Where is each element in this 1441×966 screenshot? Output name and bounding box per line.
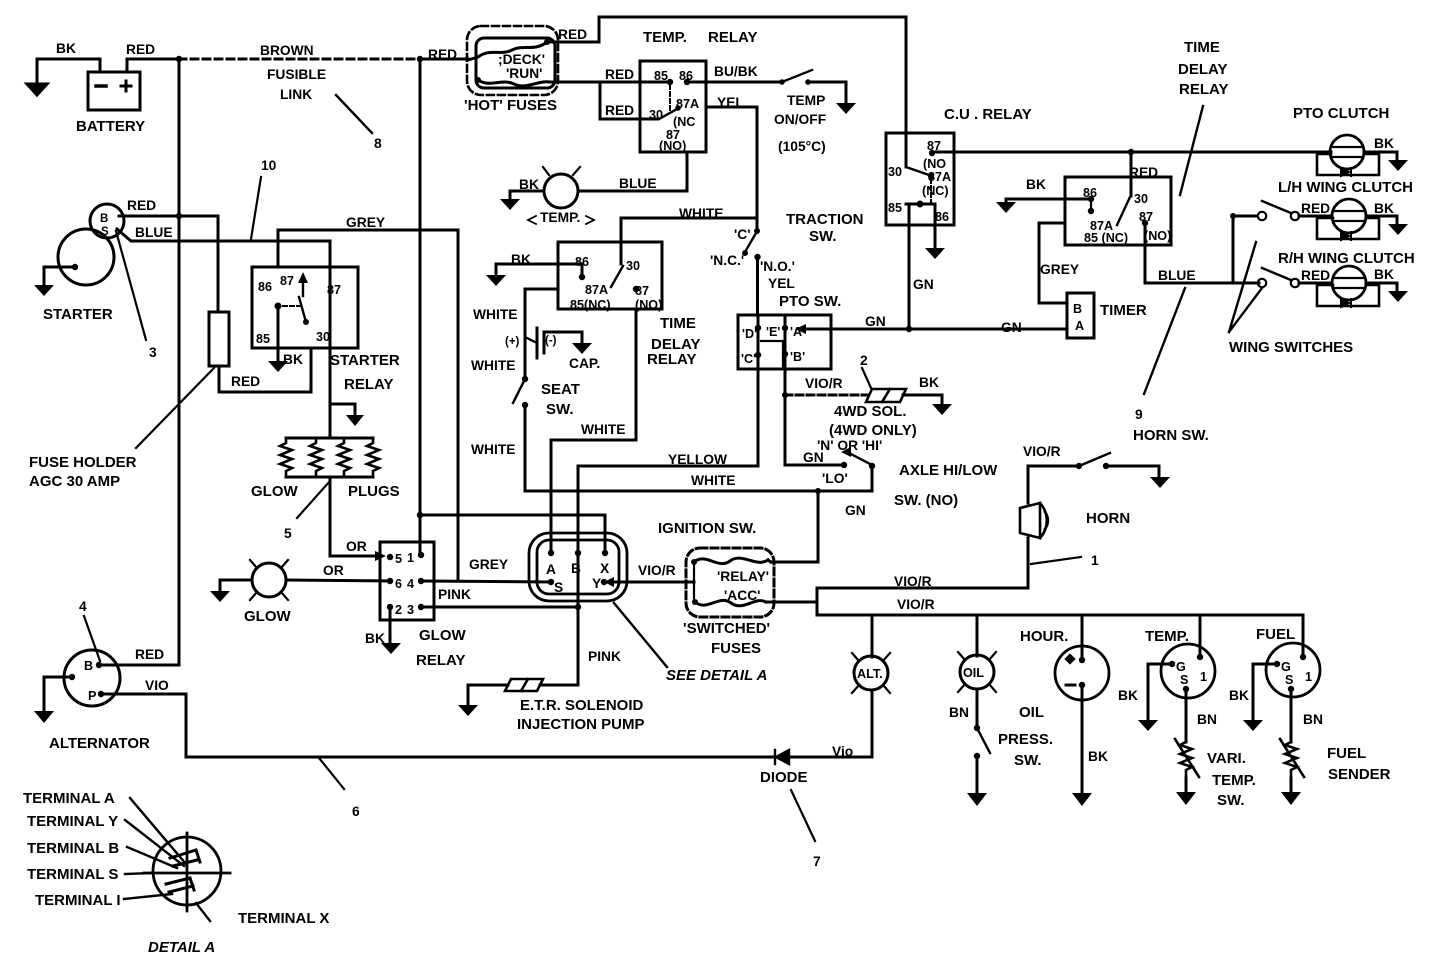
svg-text:VIO/R: VIO/R (897, 597, 935, 612)
svg-text:'SWITCHED': 'SWITCHED' (683, 620, 770, 637)
svg-text:C.U . RELAY: C.U . RELAY (944, 106, 1032, 123)
svg-text:TIME: TIME (1184, 39, 1220, 56)
wire TEMP gauge 1 feed (1199, 615, 1202, 657)
fuse ACC wavy (695, 600, 766, 605)
svg-text:PLUGS: PLUGS (348, 483, 400, 500)
svg-text:85: 85 (654, 69, 668, 83)
svg-text:FUSIBLE: FUSIBLE (267, 67, 326, 82)
R/H wing clutch frame (1317, 285, 1379, 306)
svg-text:HORN: HORN (1086, 510, 1130, 527)
svg-text:INJECTION PUMP: INJECTION PUMP (517, 716, 645, 733)
hour meter lower node (1079, 682, 1085, 688)
wire ignition B down (577, 553, 580, 607)
hot fuses inner box (476, 38, 555, 88)
arrowhead into pin5 (375, 551, 386, 561)
svg-text:TEMP.: TEMP. (643, 29, 687, 46)
svg-text:SW.: SW. (546, 401, 574, 418)
svg-text:SENDER: SENDER (1328, 766, 1391, 783)
svg-text:5: 5 (284, 526, 292, 541)
wire brown fusible link (dashed) (179, 58, 420, 61)
ground horn switch (1150, 477, 1170, 488)
svg-text:S: S (1285, 673, 1293, 687)
time delay relay 87 node (633, 286, 639, 292)
svg-text:VIO/R: VIO/R (638, 563, 676, 578)
svg-text:YEL: YEL (717, 95, 744, 110)
wire VIO alternator P to ALT lamp (101, 694, 872, 757)
svg-text:GN: GN (1001, 320, 1022, 335)
wire OR glow plug bus to glow relay 5 (330, 477, 378, 556)
svg-text:SW. (NO): SW. (NO) (894, 492, 958, 509)
ground vari temp switch (1176, 792, 1196, 805)
TEMP gauge circle (1161, 644, 1215, 698)
leader line label 8 (336, 95, 372, 133)
svg-text:RED: RED (605, 67, 634, 82)
svg-text:X: X (600, 561, 610, 576)
horn symbol (1020, 503, 1040, 538)
wire BK relay K5 86 to ground (1006, 199, 1091, 202)
glow relay pin6 node (387, 578, 393, 584)
PTO switch internal link (761, 341, 783, 367)
wire YEL temp relay 87a to traction sw (706, 107, 757, 231)
wire BLUE through relay to 30 column (329, 267, 332, 348)
horn switch node L (1076, 463, 1082, 469)
FUEL gauge S node (1288, 686, 1294, 692)
svg-text:WHITE: WHITE (679, 206, 723, 221)
ground capacitor (572, 343, 592, 354)
leader line see detail A (614, 603, 667, 667)
wire top bus down to C.U. relay 30 (905, 17, 908, 167)
ALT lamp circle (854, 656, 888, 690)
svg-text:30: 30 (316, 330, 330, 344)
svg-text:PRESS.: PRESS. (998, 731, 1053, 748)
svg-text:STARTER: STARTER (43, 306, 113, 323)
svg-text:YELLOW: YELLOW (668, 452, 728, 467)
PTO switch B node (782, 351, 788, 357)
svg-text:(4WD ONLY): (4WD ONLY) (829, 422, 917, 439)
svg-text:FUSES: FUSES (711, 640, 761, 657)
oil pressure switch bottom node (974, 753, 980, 759)
relay K5 (PTO time delay) box (1065, 177, 1171, 245)
wire RED to hot fuses (420, 58, 468, 61)
svg-text:BK: BK (1374, 136, 1394, 151)
time delay relay 86 node (579, 274, 585, 280)
wire starter relay 85 to ground BK (277, 306, 280, 361)
svg-text:1: 1 (407, 551, 414, 565)
svg-text:B: B (571, 561, 581, 576)
glow relay pin3 node (418, 604, 424, 610)
svg-text:'A': 'A' (790, 325, 805, 339)
axle switch lever (847, 452, 872, 465)
svg-text:FUEL: FUEL (1327, 745, 1366, 762)
svg-text:2: 2 (860, 353, 868, 368)
R/H clutch diode mark (1341, 299, 1351, 307)
glow lamp rays (250, 560, 288, 600)
seat switch top node (522, 376, 528, 382)
wire starter relay 87b down to glow plugs bus (329, 348, 332, 438)
svg-text:SW.: SW. (809, 228, 837, 245)
svg-text:BN: BN (1197, 712, 1217, 727)
leader line label 5 (297, 481, 330, 518)
svg-text:BK: BK (1118, 688, 1138, 703)
ground ETR solenoid (458, 705, 478, 716)
svg-text:6: 6 (395, 577, 402, 591)
svg-text:RED: RED (231, 374, 260, 389)
svg-text:SEE DETAIL A: SEE DETAIL A (666, 667, 767, 684)
wire PINK down to ETR solenoid (540, 607, 578, 685)
fuse holder F1 AGC 30 AMP (209, 312, 229, 366)
svg-text:DELAY: DELAY (1178, 61, 1227, 78)
svg-text:'B': 'B' (790, 350, 805, 364)
svg-text:RED: RED (605, 103, 634, 118)
wire fuse holder to starter relay 30 (219, 348, 311, 392)
svg-text:TERMINAL B: TERMINAL B (27, 840, 119, 857)
wire to upper wing switch (1233, 215, 1256, 218)
PTO switch E node (782, 325, 788, 331)
svg-text:(NC): (NC) (922, 184, 949, 198)
temp sender label arrows (528, 216, 594, 224)
alternator case node (69, 674, 75, 680)
detail A connector circle (153, 837, 221, 905)
leader line label 4 (84, 616, 100, 661)
fuse common link (693, 562, 695, 602)
leader line label 1 (1031, 557, 1081, 564)
wire RED C.U. relay 87 to PTO clutch (932, 152, 1331, 153)
traction switch NC node (742, 250, 748, 256)
temp relay 85 node (667, 79, 673, 85)
ground battery negative (27, 84, 47, 95)
svg-text:BATTERY: BATTERY (76, 118, 145, 135)
svg-text:1: 1 (1305, 670, 1312, 684)
wire BK R/H clutch ground (1366, 283, 1397, 291)
alternator B node (96, 662, 102, 668)
wire GN C.U. relay 85 down to GN bus (908, 204, 911, 329)
wire GN PTO A to timer A (806, 328, 1067, 331)
wire BLUE starter S to starter relay (117, 229, 330, 267)
wire BN FUEL gauge S to fuel sender (1290, 689, 1293, 742)
svg-text:'LO': 'LO' (822, 471, 848, 486)
wire RED upper wing switch to L/H clutch (1299, 215, 1332, 218)
wire VIO/R fuse acc to bus (766, 601, 817, 604)
svg-text:VARI.: VARI. (1207, 750, 1246, 767)
svg-text:TIMER: TIMER (1100, 302, 1147, 319)
seat switch lever (513, 379, 525, 403)
C.U. relay lever (906, 167, 929, 175)
node fusible link junction (417, 56, 423, 62)
wire GREY starter relay 87 to ignition S (278, 230, 458, 581)
svg-text:BLUE: BLUE (619, 176, 657, 191)
arrowhead into PTO A (795, 324, 806, 334)
svg-text:B: B (100, 213, 108, 225)
ground alternator (34, 711, 54, 723)
oil pressure switch lever (977, 728, 990, 753)
OIL lamp rays (958, 652, 996, 692)
svg-text:PINK: PINK (588, 649, 621, 664)
traction switch pivot node (754, 228, 760, 234)
wire WHITE traction common to time delay relay 30 (621, 218, 757, 264)
svg-text:9: 9 (1135, 407, 1143, 422)
wire battery feed down to starter B (178, 59, 181, 216)
svg-text:SW.: SW. (1217, 792, 1245, 809)
leader line label 6 (319, 758, 344, 789)
glow plug R3 zigzag (338, 438, 350, 477)
svg-text:RELAY: RELAY (647, 351, 696, 368)
svg-text:A: A (1075, 319, 1084, 333)
switched fuses dashed box (686, 548, 774, 617)
svg-text:BK: BK (1374, 201, 1394, 216)
ignition switch connector outer (529, 533, 627, 601)
alternator P node (98, 691, 104, 697)
svg-text:L/H WING CLUTCH: L/H WING CLUTCH (1278, 179, 1413, 196)
svg-text:TERMINAL X: TERMINAL X (238, 910, 329, 927)
svg-text:WHITE: WHITE (471, 442, 515, 457)
ground starter relay 85 (268, 361, 288, 372)
ignition pin Y node (601, 579, 607, 585)
wire VIO/R lower bus to gauges (817, 614, 1303, 617)
wire glow lamp to ground (220, 580, 252, 591)
svg-text:ON/OFF: ON/OFF (774, 112, 826, 127)
wing switch upper feed (1232, 216, 1235, 283)
wire BU/BK temp relay 86 to temp switch (687, 81, 782, 84)
svg-text:IGNITION SW.: IGNITION SW. (658, 520, 756, 537)
leader line time delay relay label (1180, 106, 1203, 195)
svg-text:86: 86 (258, 280, 272, 294)
starter relay 86 node (275, 303, 282, 310)
glow feed arrowhead (346, 415, 364, 426)
fuel sender resistor (1285, 742, 1297, 778)
leader line terminal I (124, 894, 172, 899)
svg-text:E.T.R. SOLENOID: E.T.R. SOLENOID (520, 697, 644, 714)
fuse RUN wavy (478, 80, 550, 86)
temp relay K2 box (640, 61, 706, 152)
svg-text:TRACTION: TRACTION (786, 211, 864, 228)
wire alternator case ground (44, 677, 72, 711)
ALT lamp rays (852, 653, 890, 693)
svg-text:A: A (546, 562, 556, 577)
svg-text:DIODE: DIODE (760, 769, 808, 786)
svg-text:30: 30 (649, 108, 663, 122)
lower wing switch lever (1262, 268, 1291, 280)
wire WHITE time delay relay 87 to ignition A (551, 309, 636, 552)
PTO clutch frame (1317, 154, 1379, 175)
leader line terminal Y (125, 820, 184, 866)
svg-text:ALTERNATOR: ALTERNATOR (49, 735, 150, 752)
relay K5 lever (1117, 197, 1130, 225)
ground glow lamp (210, 591, 230, 602)
wire ALT lamp to vio wire (871, 690, 874, 757)
svg-text:85: 85 (256, 332, 270, 346)
svg-text:RED: RED (1301, 268, 1330, 283)
horn symbol arcs (1040, 503, 1048, 538)
oil pressure switch top node (974, 725, 980, 731)
svg-text:TEMP: TEMP (787, 93, 825, 108)
battery minus mark (96, 84, 106, 88)
wire BK glow relay 2 ground (389, 607, 392, 643)
svg-text:GN: GN (913, 277, 934, 292)
svg-text:87: 87 (635, 284, 649, 298)
svg-text:'C': 'C' (734, 227, 751, 242)
svg-text:;DECK': ;DECK' (498, 52, 545, 67)
svg-text:WHITE: WHITE (471, 358, 515, 373)
leader line label 10 (251, 177, 261, 239)
svg-text:30: 30 (888, 165, 902, 179)
svg-text:86: 86 (575, 255, 589, 269)
svg-text:RED: RED (126, 42, 155, 57)
svg-text:86: 86 (935, 210, 949, 224)
svg-text:GN: GN (865, 314, 886, 329)
svg-text:GLOW: GLOW (419, 627, 466, 644)
svg-text:BLUE: BLUE (135, 225, 173, 240)
PTO clutch bar (1331, 147, 1363, 157)
hour meter dash mark (1066, 684, 1075, 687)
L/H wing clutch circle (1332, 199, 1366, 233)
ground relay K5 86 (996, 202, 1016, 213)
node RED branch to 2nd time delay relay (1128, 149, 1134, 155)
svg-text:TERMINAL S: TERMINAL S (27, 866, 118, 883)
L/H wing clutch bar (1333, 211, 1365, 221)
svg-text:'N.C.': 'N.C.' (710, 253, 744, 268)
wire BK temp sender to ground (510, 191, 544, 199)
wire GREY relay K5 87a to timer B (1039, 223, 1067, 303)
ground L/H clutch (1388, 224, 1408, 235)
starter relay 87 arrowhead (298, 272, 308, 283)
R/H wing clutch circle (1332, 266, 1366, 300)
arrowhead into Y (604, 577, 614, 587)
temp on/off switch right contact (805, 79, 811, 85)
svg-text:GREY: GREY (1040, 262, 1079, 277)
node fuse relay left (691, 559, 697, 565)
svg-text:HOUR.: HOUR. (1020, 628, 1068, 645)
svg-text:4WD SOL.: 4WD SOL. (834, 403, 907, 420)
svg-text:BK: BK (56, 41, 76, 56)
svg-text:P: P (88, 689, 96, 703)
svg-text:SEAT: SEAT (541, 381, 580, 398)
node pink junction (575, 604, 581, 610)
svg-text:87A: 87A (585, 283, 608, 297)
svg-text:3: 3 (149, 345, 157, 360)
starter motor circle (58, 229, 114, 285)
battery B1 (88, 72, 140, 110)
wire horn switch to ground (1106, 466, 1159, 477)
wire BLUE temp relay 87 to temp sender (579, 152, 687, 191)
wire long vertical RED to ignition X (419, 59, 422, 555)
svg-text:5: 5 (395, 552, 402, 566)
C.U. relay 85-86 link (906, 203, 935, 206)
svg-text:VIO/R: VIO/R (805, 376, 843, 391)
svg-text:BK: BK (1374, 267, 1394, 282)
horn switch lever (1079, 453, 1110, 466)
leader line terminal A (130, 798, 186, 864)
svg-text:VIO: VIO (145, 678, 169, 693)
svg-text:BK: BK (365, 631, 385, 646)
svg-text:'D': 'D' (742, 327, 757, 341)
svg-text:PTO SW.: PTO SW. (779, 293, 841, 310)
svg-text:BROWN: BROWN (260, 43, 314, 58)
starter relay lever (299, 297, 306, 322)
svg-text:G: G (1176, 660, 1186, 674)
svg-text:ALT.: ALT. (857, 667, 883, 681)
leader line label 3 (116, 231, 146, 340)
VIO/R bus riser (816, 588, 819, 615)
svg-text:85 (NC): 85 (NC) (1084, 231, 1128, 245)
svg-text:CAP.: CAP. (569, 356, 600, 371)
OIL lamp circle (960, 655, 994, 689)
svg-text:(NC: (NC (673, 115, 695, 129)
svg-text:(NO): (NO) (635, 298, 662, 312)
R/H wing clutch bar (1333, 278, 1365, 288)
svg-text:OR: OR (323, 563, 344, 578)
svg-text:'RELAY': 'RELAY' (717, 569, 769, 584)
leader line terminal S (125, 873, 153, 874)
hour meter diamond dot (1064, 653, 1075, 664)
svg-text:GLOW: GLOW (251, 483, 298, 500)
fuel sender arrow (1280, 739, 1304, 777)
svg-text:GN: GN (803, 450, 824, 465)
C.U. relay 87a node (928, 173, 934, 179)
svg-text:BU/BK: BU/BK (714, 64, 758, 79)
svg-text:WHITE: WHITE (581, 422, 625, 437)
node 4WD branch (782, 392, 788, 398)
svg-text:87: 87 (280, 274, 294, 288)
glow plugs top bus (286, 437, 373, 440)
wire fuse relay to axle GN wire (768, 560, 771, 562)
TEMP gauge S node (1183, 686, 1189, 692)
ground temp switch (836, 103, 856, 114)
svg-text:GREY: GREY (469, 557, 508, 572)
wire VIO/R dashed to 4WD solenoid (785, 394, 868, 397)
leader line label 2 (862, 368, 871, 388)
horn switch node R (1103, 463, 1109, 469)
detail A crosshair vertical (186, 833, 189, 911)
svg-text:TEMP.: TEMP. (540, 210, 580, 225)
svg-text:WHITE: WHITE (691, 473, 735, 488)
wire BN TEMP gauge S to vari temp sw (1185, 689, 1188, 742)
svg-text:(+): (+) (505, 336, 520, 348)
seat switch bottom node (522, 402, 528, 408)
svg-text:BN: BN (949, 705, 969, 720)
svg-text:(NO): (NO) (1144, 229, 1171, 243)
svg-text:G: G (1281, 660, 1291, 674)
ground TEMP gauge (1138, 720, 1158, 731)
svg-text:WING SWITCHES: WING SWITCHES (1229, 339, 1353, 356)
svg-text:RED: RED (1301, 201, 1330, 216)
fuse RELAY wavy (694, 558, 768, 563)
svg-text:87: 87 (327, 283, 341, 297)
svg-text:DETAIL A: DETAIL A (148, 939, 215, 956)
axle switch right node (869, 463, 875, 469)
axle switch left node (841, 462, 847, 468)
svg-text:RED: RED (135, 647, 164, 662)
svg-text:'HOT' FUSES: 'HOT' FUSES (464, 97, 557, 114)
starter relay K1 box (252, 267, 358, 348)
node fuse deck right (544, 39, 550, 45)
FUEL gauge circle (1266, 643, 1320, 697)
wire BK PTO clutch ground (1364, 152, 1397, 160)
wire BLUE relay K5 87 to wing switches (1145, 223, 1259, 283)
svg-text:RELAY: RELAY (1179, 81, 1228, 98)
svg-text:85: 85 (888, 201, 902, 215)
node fuse run left (475, 77, 481, 83)
capacitor C1 plate 2 (543, 333, 546, 353)
PTO switch D node (755, 325, 761, 331)
lower wing switch contact R (1291, 279, 1299, 287)
leader line label 9 horn sw (1144, 288, 1185, 394)
vari temp switch resistor (1180, 742, 1192, 778)
glow relay box (380, 542, 434, 620)
svg-text:S: S (101, 226, 109, 238)
relay K5 86 node2 (1088, 208, 1094, 214)
ground hour meter (1072, 793, 1092, 806)
ground fuel sender (1281, 792, 1301, 805)
